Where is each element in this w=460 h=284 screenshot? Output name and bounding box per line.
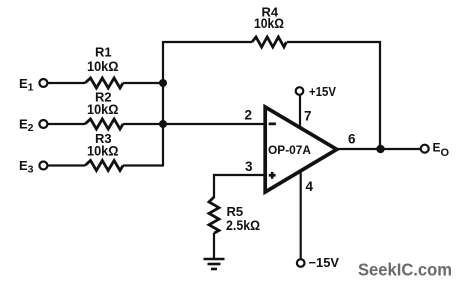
wire top feedback left segment [163,41,252,43]
svg-text:2: 2 [245,108,253,123]
wire pin 4 to -15V [300,170,302,260]
op-amp inverting input minus sign [269,123,276,126]
wire E1 to R1 [48,82,86,84]
wire E2 to R2 [48,123,86,125]
terminal E1 [39,79,47,87]
wire E3 to R3 [48,164,86,166]
wire feedback right vertical [379,41,381,149]
svg-text:+15V: +15V [309,84,336,99]
wire top feedback right segment [287,41,381,43]
resistor R5 [209,197,219,233]
svg-text:10kΩ: 10kΩ [87,101,119,117]
resistor R3 [85,161,123,171]
svg-text:10kΩ: 10kΩ [254,15,284,31]
wire pin 7 to +15V [299,95,301,128]
svg-text:3: 3 [245,159,253,174]
resistor R2 [85,119,123,129]
svg-text:2.5kΩ: 2.5kΩ [226,217,260,233]
svg-text:−15V: −15V [309,255,340,270]
terminal +15V [296,87,304,95]
wire R1 to bus [123,82,164,84]
svg-text:EO: EO [433,141,450,160]
node junction output feedback [376,145,384,153]
svg-text:7: 7 [304,109,312,124]
wire summing bus vertical [162,41,164,166]
terminal EO [421,145,429,153]
svg-text:6: 6 [348,132,356,147]
op-amp U1 OP-07A [265,107,337,192]
svg-text:E3: E3 [19,158,34,176]
svg-text:E2: E2 [19,117,34,135]
ground [204,259,225,269]
wire R5 to ground [213,233,215,259]
resistor R1 [85,78,123,88]
terminal E2 [39,120,47,128]
terminal -15V [297,259,305,267]
op-amp non-inverting input plus sign [269,172,276,179]
svg-text:10kΩ: 10kΩ [87,58,119,74]
svg-text:OP-07A: OP-07A [268,143,311,157]
svg-text:E1: E1 [19,76,34,94]
wire output [337,148,421,150]
resistor R4 [252,37,286,47]
node junction E2 bus [159,120,167,128]
wire R3 to bus [123,164,164,166]
svg-text:4: 4 [306,179,314,194]
node junction E1 bus [159,79,167,87]
wire non-inverting input pin 3 [214,175,265,198]
wire R2 to op-amp inverting input pin 2 [123,123,265,125]
terminal E3 [39,162,47,170]
svg-text:10kΩ: 10kΩ [87,143,119,159]
svg-text:SeekIC.com: SeekIC.com [358,260,452,280]
